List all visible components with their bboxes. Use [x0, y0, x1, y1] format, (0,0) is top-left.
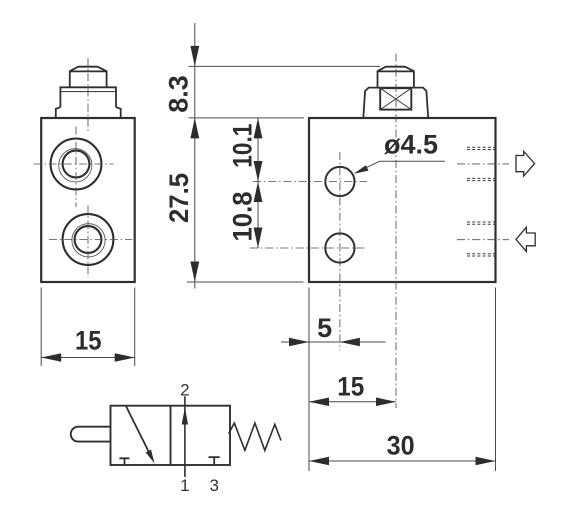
dimension line 8.3 / 27.5 — [194, 23, 196, 289]
side view: top button nut — [378, 67, 414, 88]
valve symbol boxes — [111, 406, 231, 465]
front view: top button nut — [70, 67, 107, 88]
flow arrow in (left) — [516, 227, 535, 251]
centerline upper side port — [457, 163, 509, 165]
hidden thread lines upper side port — [467, 147, 495, 180]
front view: lower port outer circle — [63, 214, 114, 265]
svg-text:8.3: 8.3 — [163, 75, 193, 113]
front view centerlines — [34, 58, 133, 278]
push button actuator — [71, 427, 111, 442]
centerline cap vertical — [87, 58, 89, 131]
front view: cap flange — [56, 87, 121, 118]
svg-text:10.8: 10.8 — [228, 192, 258, 242]
svg-text:1: 1 — [180, 476, 189, 495]
centerline upper hole horizontal — [253, 181, 367, 183]
side view: upper hole — [325, 167, 354, 196]
svg-text:10.1: 10.1 — [228, 124, 258, 168]
centerline lower hole horizontal — [250, 247, 367, 249]
flow arrow out (right) — [516, 151, 535, 176]
spring return — [229, 423, 281, 450]
svg-text:ø4.5: ø4.5 — [384, 130, 438, 160]
front view: lower port thread arc — [72, 224, 105, 257]
dimension 5 — [281, 341, 386, 343]
leader line diameter 4.5 — [357, 161, 445, 172]
side view centerlines — [250, 54, 509, 409]
front view: upper port outer circle — [51, 139, 102, 190]
side view: crossed seal box — [380, 88, 411, 109]
front view: lower port inner circle — [75, 226, 102, 253]
svg-text:27.5: 27.5 — [164, 173, 194, 223]
blocked port tee left chamber — [119, 458, 129, 465]
dimension 8.3 extension lines — [187, 23, 380, 289]
closed position diagonal arrow — [126, 406, 148, 451]
centerline upper port horizontal — [34, 163, 114, 165]
dimension 30 — [309, 460, 496, 462]
svg-text:30: 30 — [387, 430, 415, 460]
side view: cap flange — [363, 88, 428, 118]
flow path arrowhead — [182, 408, 188, 425]
svg-text:15: 15 — [337, 372, 364, 402]
svg-text:3: 3 — [209, 476, 218, 495]
svg-text:15: 15 — [75, 325, 102, 355]
svg-text:5: 5 — [317, 313, 332, 343]
centerline lower port horizontal — [49, 239, 133, 241]
centerline cap vertical — [395, 54, 397, 409]
dimension line 10.1 / 10.8 — [257, 118, 259, 249]
front view: upper port inner circle — [63, 151, 90, 178]
blocked port tee right chamber — [209, 457, 220, 465]
bottom extension lines — [309, 288, 496, 472]
centerline lower port vertical — [87, 206, 89, 278]
centerline lower side port — [457, 239, 509, 241]
arrows 8.3 / 27.5 — [190, 46, 199, 67]
side view: valve body outline — [309, 118, 496, 282]
svg-text:2: 2 — [180, 381, 189, 400]
side view: lower hole — [325, 233, 354, 262]
flow path line port 2 — [184, 396, 186, 477]
front view: upper port thread arc — [59, 149, 92, 182]
front view: valve body outline — [41, 118, 135, 282]
centerline holes vertical — [339, 152, 341, 351]
dimension 15 front view — [41, 288, 135, 367]
centerline upper port vertical — [75, 127, 77, 208]
hidden thread lines lower side port — [467, 222, 495, 256]
dimension 15 side view — [309, 401, 396, 403]
valve symbol divider — [170, 406, 172, 465]
